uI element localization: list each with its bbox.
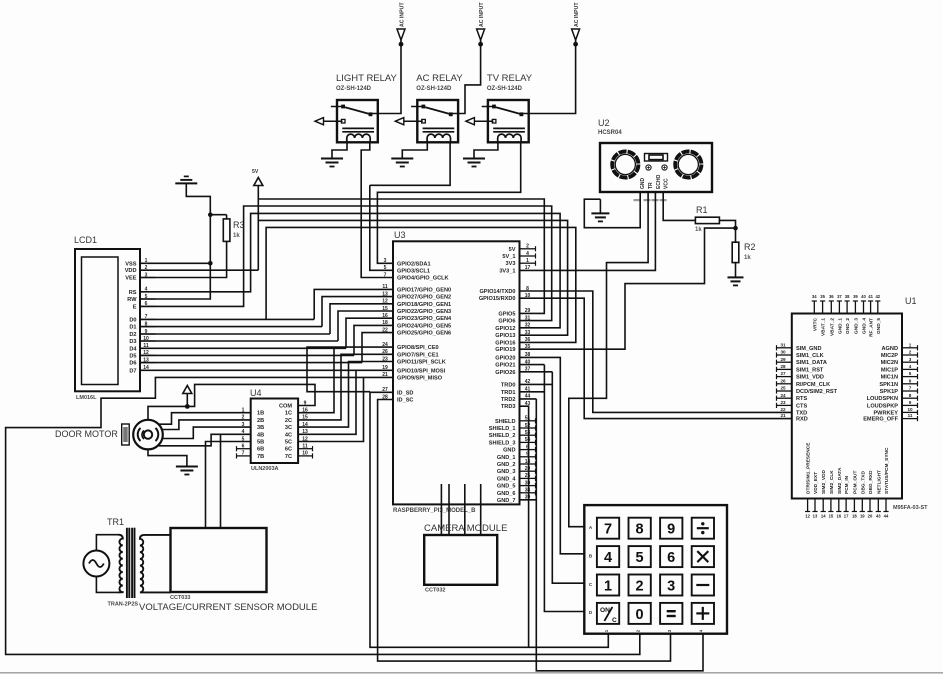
svg-text:VDD_EXT: VDD_EXT (813, 472, 819, 494)
wire LCD D5 to U3 GPIO_GEN5 (140, 325, 393, 355)
wire U4 1C to U3 row24 (298, 347, 334, 413)
svg-text:24: 24 (780, 393, 786, 398)
svg-text:43: 43 (876, 514, 881, 519)
wire motor phase2 to U4 2B (161, 420, 251, 430)
wire U3 GPIO20 to keypad row B (520, 357, 584, 553)
svg-text:AC INPUT: AC INPUT (479, 2, 485, 27)
camera module wires (441, 484, 480, 535)
svg-text:5B: 5B (257, 440, 264, 446)
ground under TV relay (463, 159, 485, 167)
svg-text:ECHO: ECHO (656, 174, 662, 189)
svg-text:GPIO14/TXD0: GPIO14/TXD0 (479, 289, 515, 295)
svg-text:D7: D7 (129, 368, 136, 374)
svg-text:D1: D1 (129, 325, 136, 331)
svg-text:TV RELAY: TV RELAY (487, 73, 533, 84)
svg-text:SHIELD_1: SHIELD_1 (489, 426, 516, 432)
svg-text:GND_5: GND_5 (497, 484, 516, 490)
svg-text:R1: R1 (696, 205, 708, 215)
svg-text:VRTC: VRTC (812, 317, 818, 331)
wire U3 SPI_CE0 to ID_SD net (307, 347, 393, 392)
wire LCD D0 to U3 GPIO_GEN0 (140, 289, 393, 319)
svg-text:GPIO15/RXD0: GPIO15/RXD0 (479, 296, 516, 302)
svg-text:GPIO8/SPI_CE0: GPIO8/SPI_CE0 (397, 345, 439, 351)
svg-text:SPK1P: SPK1P (880, 389, 899, 395)
svg-text:DBG_TXD: DBG_TXD (860, 471, 866, 494)
svg-text:DCD/SIM2_RST: DCD/SIM2_RST (796, 389, 838, 395)
wire bus RS to GPIO12 column (140, 213, 560, 327)
svg-text:42: 42 (875, 294, 880, 299)
svg-text:OZ-SH-124D: OZ-SH-124D (336, 86, 372, 92)
svg-text:38: 38 (845, 294, 850, 299)
LCD display LCD1 LM016L (74, 235, 156, 401)
svg-text:17: 17 (525, 265, 531, 271)
keypad KEYPAD-CALC 4x4 (584, 505, 727, 634)
svg-text:GPIO22/GPIO_GEN3: GPIO22/GPIO_GEN3 (397, 309, 451, 315)
svg-text:GPIO2/SDA1: GPIO2/SDA1 (397, 261, 431, 267)
svg-text:DOOR MOTOR: DOOR MOTOR (55, 429, 118, 439)
svg-text:16: 16 (382, 313, 388, 319)
svg-text:22: 22 (382, 327, 388, 333)
svg-text:VBAT_1: VBAT_1 (821, 318, 827, 336)
relay RL2 AC RELAY OZ-SH-124D (395, 73, 463, 142)
svg-text:VDD: VDD (125, 268, 137, 274)
wire U3 GPIO26+TRD0 to keypad row C (520, 372, 584, 583)
svg-text:SIM1_RST: SIM1_RST (796, 367, 824, 373)
svg-text:25: 25 (780, 386, 786, 391)
svg-text:3V3: 3V3 (506, 261, 516, 267)
svg-text:TR1: TR1 (107, 517, 124, 527)
svg-text:SIM_GND: SIM_GND (796, 346, 822, 352)
svg-text:GPIO20: GPIO20 (495, 355, 515, 361)
svg-text:3: 3 (667, 579, 675, 595)
svg-text:4: 4 (604, 550, 612, 566)
svg-text:M95FA-03-ST: M95FA-03-ST (893, 505, 928, 511)
svg-text:3: 3 (384, 258, 387, 264)
wire U2 VCC to U3 3V3_1 (520, 192, 655, 270)
svg-text:RASPBERRY_PI3_MODEL_B: RASPBERRY_PI3_MODEL_B (393, 508, 476, 514)
svg-text:GPIO4/GPIO_GCLK: GPIO4/GPIO_GCLK (397, 276, 449, 282)
svg-text:MIC1N: MIC1N (881, 375, 898, 381)
resistor R3 (223, 215, 244, 242)
svg-text:GND_7: GND_7 (497, 498, 516, 504)
svg-text:4C: 4C (285, 432, 292, 438)
wire U4 4C to U3 SPI_MOSI row (298, 370, 356, 434)
svg-text:STATUS/PCM_SYNC: STATUS/PCM_SYNC (884, 447, 890, 494)
svg-text:DTR/SIM1_PRESENCE: DTR/SIM1_PRESENCE (806, 442, 812, 494)
svg-text:3B: 3B (257, 425, 264, 431)
svg-text:7: 7 (909, 386, 912, 391)
svg-text:VCC: VCC (664, 178, 670, 189)
svg-text:4B: 4B (257, 432, 264, 438)
wire U2 TR to keypad row A (569, 192, 648, 527)
wire keypad col1 to U3 ID_SD (370, 392, 608, 647)
wire LCD D3 to U3 GPIO_GEN3 (140, 311, 393, 341)
svg-text:36: 36 (525, 337, 531, 343)
svg-text:12: 12 (382, 299, 388, 305)
svg-text:VBAT_2: VBAT_2 (829, 318, 835, 336)
svg-text:14: 14 (821, 514, 826, 519)
resistor R2 (732, 228, 755, 277)
wire U2 ECHO to R1 (663, 192, 695, 220)
svg-text:44: 44 (884, 514, 889, 519)
svg-text:8: 8 (909, 393, 912, 398)
svg-text:LCD1: LCD1 (74, 235, 97, 245)
svg-text:GPIO13: GPIO13 (495, 333, 515, 339)
svg-text:7C: 7C (285, 454, 292, 460)
svg-text:11: 11 (382, 284, 388, 290)
svg-text:RF_ANT: RF_ANT (869, 318, 875, 337)
svg-text:8: 8 (636, 522, 644, 538)
svg-text:18: 18 (852, 514, 857, 519)
svg-text:35: 35 (525, 344, 531, 350)
wire bus 5V to GPIO5 column (258, 199, 544, 313)
wire motor phase3 to U4 3B (163, 427, 251, 438)
terminal AC INPUT 3 (572, 2, 581, 47)
svg-text:1: 1 (909, 342, 912, 347)
svg-text:21: 21 (780, 413, 786, 418)
power 5V arrow (LCD VDD) (252, 169, 263, 270)
svg-text:6B: 6B (257, 447, 264, 453)
svg-text:TRD2: TRD2 (501, 397, 516, 403)
svg-text:SIM1_CLK: SIM1_CLK (796, 353, 824, 359)
svg-text:GPIO25/GPIO_GEN6: GPIO25/GPIO_GEN6 (397, 331, 451, 337)
svg-text:LIGHT RELAY: LIGHT RELAY (336, 73, 398, 84)
svg-text:D2: D2 (129, 332, 136, 338)
svg-text:7: 7 (384, 272, 387, 278)
svg-text:SHIELD_3: SHIELD_3 (489, 440, 516, 446)
svg-text:VEE: VEE (125, 276, 136, 282)
svg-text:LOUDSPKN: LOUDSPKN (867, 396, 898, 402)
svg-text:31: 31 (525, 315, 531, 321)
svg-text:40: 40 (861, 294, 866, 299)
svg-text:2: 2 (909, 350, 912, 355)
wire motor phase4 to U4 4B (159, 434, 251, 446)
resistor R1 (695, 205, 719, 233)
svg-text:27: 27 (780, 371, 786, 376)
wire bus D0 to GPIO16 column (266, 227, 576, 342)
svg-text:GPIO3/SCL1: GPIO3/SCL1 (397, 268, 430, 274)
svg-text:GND_3: GND_3 (497, 469, 516, 475)
svg-text:RW: RW (127, 297, 137, 303)
svg-text:D6: D6 (129, 361, 136, 367)
svg-text:OZ-SH-124D: OZ-SH-124D (416, 86, 452, 92)
svg-text:SPK1N: SPK1N (879, 382, 898, 388)
wire ground to VSS and RW (140, 183, 210, 299)
svg-text:20: 20 (868, 514, 873, 519)
svg-text:GPIO26: GPIO26 (495, 370, 515, 376)
relay RL3 TV RELAY OZ-SH-124D (466, 73, 533, 142)
svg-text:PCM_IN: PCM_IN (844, 475, 850, 494)
svg-text:30: 30 (780, 350, 786, 355)
svg-text:6: 6 (667, 550, 675, 566)
svg-text:3: 3 (909, 357, 912, 362)
svg-text:29: 29 (780, 357, 786, 362)
wire R3 to VEE (140, 241, 227, 277)
ground above LCD (VSS/RW net) (175, 176, 197, 183)
svg-text:TR: TR (648, 182, 654, 189)
svg-text:10: 10 (907, 407, 913, 412)
svg-text:RI/PCM_CLK: RI/PCM_CLK (796, 382, 830, 388)
svg-text:U3: U3 (394, 230, 406, 240)
wire AC input 2 to AC relay NO contact (458, 44, 481, 114)
svg-text:GPIO6: GPIO6 (498, 319, 515, 325)
svg-text:5: 5 (636, 550, 644, 566)
wire R1 to junction (719, 220, 735, 228)
svg-text:GND_4: GND_4 (862, 318, 868, 334)
svg-text:GND_2: GND_2 (497, 462, 516, 468)
wire motor bottom to ground (148, 449, 187, 466)
svg-text:41: 41 (868, 294, 873, 299)
wire AC input 1 to LIGHT relay NO contact (378, 44, 401, 114)
svg-text:GPIO7/SPI_CE1: GPIO7/SPI_CE1 (397, 352, 439, 358)
wire U4 5C to U3 SPI_MISO row (298, 377, 363, 441)
wire bus 5V branch to GPIO13 column (258, 220, 567, 335)
GSM module U1 M95FA-03-ST (777, 294, 929, 519)
wire keypad col2 to outer loop (MISO) (6, 377, 640, 654)
U4 unconnected stubs (237, 446, 313, 458)
svg-text:37: 37 (837, 294, 842, 299)
wire U4 3C to U3 SPI_SCLK (298, 362, 393, 428)
wire LCD D4 to U3 GPIO_GEN4 (140, 318, 393, 348)
svg-text:VOLTAGE/CURRENT SENSOR MODULE: VOLTAGE/CURRENT SENSOR MODULE (139, 602, 317, 613)
svg-text:NETLIGHT: NETLIGHT (876, 470, 882, 494)
svg-text:ULN2003A: ULN2003A (251, 466, 279, 472)
svg-text:C: C (612, 617, 617, 624)
wire LIGHT relay coil left leg to ground (332, 142, 347, 158)
driver U4 ULN2003A (242, 388, 308, 472)
svg-text:SHIELD: SHIELD (495, 419, 516, 425)
svg-text:GND_5: GND_5 (876, 318, 882, 334)
wire U3 GPIO21+TRD1 to keypad row D (520, 365, 584, 612)
svg-text:GND_3: GND_3 (853, 318, 859, 334)
wire U3 RXD0 to U1 RXD (520, 298, 791, 418)
svg-text:0: 0 (636, 607, 644, 623)
wire AC input 3 to TV relay NO contact (529, 44, 576, 114)
wire U4 2C to U3 SPI_CE1 (298, 354, 393, 420)
svg-text:RTS: RTS (796, 396, 807, 402)
svg-text:SHIELD_2: SHIELD_2 (489, 433, 516, 439)
svg-text:1k: 1k (695, 227, 702, 233)
svg-text:13: 13 (382, 291, 388, 297)
wire AC relay coil to U3 pin5 GPIO3 (370, 142, 450, 270)
voltage/current sensor module CCT033 (139, 528, 317, 613)
wire U3 TXD0 to U1 TXD (520, 291, 791, 412)
svg-text:17: 17 (844, 514, 849, 519)
svg-text:6: 6 (909, 378, 912, 383)
junction R1-R2 (733, 226, 738, 231)
wire AC source to TR1 primary (96, 535, 118, 593)
terminal AC INPUT 2 (477, 2, 486, 47)
svg-text:TRD1: TRD1 (501, 390, 516, 396)
svg-text:GPIO11/SPI_SCLK: GPIO11/SPI_SCLK (397, 360, 446, 366)
svg-text:36: 36 (829, 294, 834, 299)
svg-text:9: 9 (909, 400, 912, 405)
wire AC relay coil left leg to ground (402, 142, 427, 158)
svg-text:R3: R3 (233, 220, 245, 230)
svg-text:AC RELAY: AC RELAY (416, 73, 463, 84)
svg-text:7: 7 (604, 522, 612, 538)
svg-text:28: 28 (780, 364, 786, 369)
svg-text:5V_1: 5V_1 (502, 254, 515, 260)
svg-text:D3: D3 (129, 339, 136, 345)
svg-text:19: 19 (860, 514, 865, 519)
svg-text:LM016L: LM016L (76, 395, 97, 401)
svg-text:5V: 5V (252, 169, 259, 175)
wire motor common to 5V junction (148, 406, 187, 419)
svg-text:U4: U4 (250, 388, 262, 398)
svg-text:GND_1: GND_1 (497, 455, 516, 461)
wire LCD D2 to U3 GPIO_GEN2 (140, 304, 393, 334)
svg-text:19: 19 (382, 365, 388, 371)
junction ground-R3 (208, 212, 213, 217)
svg-text:GPIO21: GPIO21 (495, 363, 515, 369)
junction 5V motor (185, 404, 190, 409)
svg-text:15: 15 (382, 306, 388, 312)
svg-text:2C: 2C (285, 418, 292, 424)
svg-text:16: 16 (836, 514, 841, 519)
svg-text:6C: 6C (285, 447, 292, 453)
svg-text:3C: 3C (285, 425, 292, 431)
svg-text:R2: R2 (744, 242, 756, 252)
svg-text:1k: 1k (744, 255, 751, 261)
wire LCD D1 to U3 GPIO_GEN1 (140, 297, 393, 327)
svg-text:1: 1 (604, 579, 612, 595)
svg-text:GPIO23/GPIO_GEN4: GPIO23/GPIO_GEN4 (397, 316, 452, 322)
wire TV relay coil left leg to ground (474, 142, 498, 158)
svg-text:U2: U2 (598, 118, 610, 128)
wire VDD row (140, 269, 258, 271)
svg-text:SIM2_VDD: SIM2_VDD (821, 469, 827, 494)
svg-text:U1: U1 (905, 296, 917, 306)
svg-text:GPIO24/GPIO_GEN5: GPIO24/GPIO_GEN5 (397, 323, 451, 329)
svg-text:22: 22 (780, 407, 786, 412)
wire LCD D7 to U3 pin19 row (140, 369, 393, 371)
svg-text:11: 11 (908, 413, 913, 418)
svg-text:1k: 1k (233, 233, 240, 239)
junction VSS (208, 261, 213, 266)
svg-text:GND_6: GND_6 (497, 491, 516, 497)
camera module CCT032 (424, 523, 507, 594)
svg-text:EMERG_OFF: EMERG_OFF (863, 417, 898, 423)
svg-text:GND_2: GND_2 (845, 318, 851, 334)
svg-text:GPIO17/GPIO_GEN0: GPIO17/GPIO_GEN0 (397, 287, 451, 293)
svg-text:COM: COM (279, 404, 292, 410)
svg-text:5C: 5C (285, 440, 292, 446)
ground under R2 (728, 277, 744, 285)
svg-text:TRD0: TRD0 (501, 382, 516, 388)
svg-text:33: 33 (525, 330, 531, 336)
svg-text:31: 31 (780, 342, 786, 347)
svg-text:35: 35 (820, 294, 825, 299)
svg-text:TRD3: TRD3 (501, 404, 516, 410)
wire keypad col3 to U3 ID_SC (378, 400, 671, 662)
wire U4 COM to 5V junction (187, 384, 315, 406)
svg-text:OZ-SH-124D: OZ-SH-124D (487, 86, 523, 92)
svg-text:GPIO9/SPI_MISO: GPIO9/SPI_MISO (397, 375, 443, 381)
svg-text:MIC1P: MIC1P (881, 367, 898, 373)
svg-text:3V3_1: 3V3_1 (499, 268, 515, 274)
svg-text:GND: GND (503, 448, 515, 454)
wire LIGHT relay coil to U3 pin7 GPIO4 (361, 142, 393, 277)
svg-text:34: 34 (812, 294, 817, 299)
svg-text:GPIO12: GPIO12 (495, 326, 515, 332)
svg-text:RXD: RXD (796, 417, 808, 423)
wire sensor module to U4 5B (206, 442, 251, 529)
svg-text:ID_SD: ID_SD (397, 390, 413, 396)
svg-text:MIC2P: MIC2P (881, 353, 898, 359)
svg-text:DBG_RXD: DBG_RXD (868, 470, 874, 494)
svg-text:5: 5 (384, 265, 387, 271)
svg-text:MIC2N: MIC2N (881, 360, 898, 366)
relay RL1 LIGHT RELAY OZ-SH-124D (315, 73, 398, 142)
transformer TR1 TRAN-2P2S (107, 517, 171, 608)
svg-text:GPIO5: GPIO5 (498, 311, 515, 317)
ultrasonic sensor U2 HCSR04 (598, 118, 712, 192)
svg-text:CAMERA MODULE: CAMERA MODULE (424, 523, 507, 534)
svg-text:CCT033: CCT033 (170, 595, 190, 601)
wire U3 TRD2+GND_7 to keypad column 4 (520, 399, 703, 671)
svg-text:GPIO16: GPIO16 (495, 340, 515, 346)
svg-text:LOUDSPKP: LOUDSPKP (867, 403, 898, 409)
svg-text:GPIO27/GPIO_GEN2: GPIO27/GPIO_GEN2 (397, 295, 451, 301)
ground under LIGHT relay (321, 159, 343, 167)
svg-text:SIM1_DATA: SIM1_DATA (796, 360, 827, 366)
svg-text:9: 9 (667, 522, 675, 538)
svg-text:AC INPUT: AC INPUT (574, 2, 580, 27)
terminal AC INPUT 1 (397, 2, 406, 47)
svg-text:GND_1: GND_1 (837, 318, 843, 334)
svg-text:1B: 1B (257, 411, 264, 417)
wire LCD D6 to U3 GPIO_GEN6 (140, 333, 393, 363)
svg-text:GPIO18/GPIO_GEN1: GPIO18/GPIO_GEN1 (397, 302, 451, 308)
svg-text:12: 12 (805, 514, 810, 519)
Raspberry Pi U3 RASPBERRY_PI3_MODEL_B (382, 230, 535, 514)
ground under AC relay (391, 159, 413, 167)
wire bus E to GPIO6 column (140, 206, 552, 321)
ground under motor (176, 467, 198, 475)
power 5V arrow (motor) (183, 386, 192, 407)
svg-text:D0: D0 (129, 317, 136, 323)
svg-text:TXD: TXD (796, 410, 807, 416)
svg-text:13: 13 (813, 514, 818, 519)
svg-text:SIM1_VDD: SIM1_VDD (796, 375, 824, 381)
svg-text:PCM_OUT: PCM_OUT (852, 470, 858, 494)
svg-text:5: 5 (909, 371, 912, 376)
svg-text:29: 29 (525, 308, 531, 314)
svg-text:7B: 7B (257, 454, 264, 460)
svg-text:GND: GND (640, 178, 646, 190)
svg-text:SIM2_CLK: SIM2_CLK (829, 470, 835, 494)
wire R3 top to ground net (210, 214, 226, 216)
svg-text:2: 2 (636, 579, 644, 595)
svg-text:39: 39 (853, 294, 858, 299)
svg-text:RS: RS (129, 290, 137, 296)
svg-text:HCSR04: HCSR04 (598, 130, 622, 136)
net labels on U2 wires (634, 199, 667, 201)
wire sensor module to U4 4B row (220, 434, 222, 528)
svg-text:23: 23 (780, 400, 786, 405)
svg-text:26: 26 (780, 378, 786, 383)
svg-text:2B: 2B (257, 418, 264, 424)
svg-text:18: 18 (382, 320, 388, 326)
svg-text:PWRKEY: PWRKEY (873, 410, 898, 416)
svg-text:VSS: VSS (125, 261, 136, 267)
svg-text:32: 32 (525, 323, 531, 329)
svg-text:D4: D4 (129, 346, 137, 352)
svg-text:4: 4 (909, 364, 912, 369)
svg-text:CCT032: CCT032 (425, 588, 445, 594)
svg-text:5V: 5V (509, 247, 516, 253)
